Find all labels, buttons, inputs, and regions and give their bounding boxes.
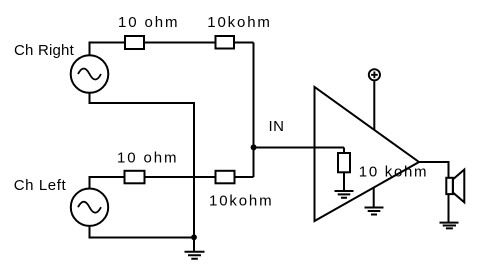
wire amp output to speaker [419,162,449,178]
resistor R3 10 ohm (bottom) [125,171,145,184]
resistor R5 10 kohm (amp input) [343,148,345,154]
svg-text:Ch Left: Ch Left [14,177,67,194]
ground G3 (amp power) [373,188,375,208]
AC source V2 Ch Left [71,189,108,226]
svg-text:10 ohm: 10 ohm [117,149,178,166]
ground G1 (bottom junction) [193,238,195,252]
AC source V1 Ch Right [71,55,109,93]
amplifier U1 triangle [315,87,420,221]
wire right vertical down to IN and to lower resistor row [253,43,255,178]
svg-text:10kohm: 10kohm [207,14,271,31]
wire top row (Ch Right to corner) [90,43,254,56]
power V+ circled plus [369,69,380,80]
wire Ch Left bottom to ground junction [90,226,195,238]
wire Ch Right bottom to vertical bus [90,93,195,238]
power V+ stem [373,80,375,130]
resistor R4 10kohm (bottom) [216,171,235,184]
svg-text:IN: IN [269,118,285,135]
speaker LS1 [446,178,453,194]
svg-text:10 ohm: 10 ohm [118,14,179,31]
node ground junction dot [191,234,197,240]
ground G2 (amp input resistor) [335,191,354,198]
ground G4 (speaker) [440,223,459,229]
wire speaker to ground [448,194,450,223]
wire IN node to amplifier input [254,147,345,149]
svg-text:10 kohm: 10 kohm [359,164,428,181]
resistor R1 10 ohm (top) [125,36,144,49]
wire Ch Left top row [90,177,254,189]
svg-text:Ch Right: Ch Right [14,42,75,59]
resistor R2 10kohm (top) [216,36,235,49]
svg-text:10kohm: 10kohm [209,193,273,210]
node IN junction dot [251,144,257,150]
